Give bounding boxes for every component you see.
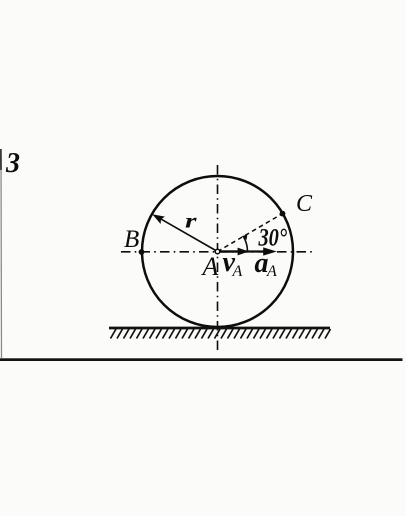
- svg-text:B: B: [124, 226, 139, 253]
- svg-text:3: 3: [5, 148, 20, 179]
- svg-text:C: C: [296, 191, 313, 217]
- svg-text:A: A: [232, 263, 243, 280]
- svg-text:r: r: [185, 209, 198, 233]
- svg-text:A: A: [201, 252, 219, 281]
- svg-text:A: A: [266, 263, 277, 280]
